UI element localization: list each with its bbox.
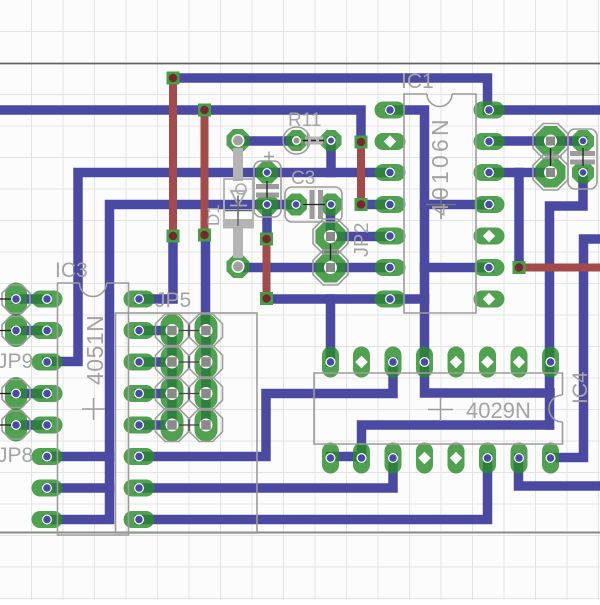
board outline top edge bbox=[0, 63, 600, 65]
airwire R11 bbox=[303, 140, 325, 142]
JP2 label bbox=[351, 223, 373, 257]
via V7 at (266.5,239) bbox=[260, 233, 273, 246]
IC1 pad holes bbox=[384, 105, 495, 305]
svg-text:JP8: JP8 bbox=[0, 444, 33, 467]
wire IC4 pad up and across bbox=[362, 425, 550, 458]
JP2 header outline bbox=[313, 219, 348, 285]
wire IC3 pin stub row 488 bbox=[47, 483, 110, 493]
airwire C3 bbox=[303, 204, 325, 206]
IC IC3 package outline bbox=[58, 283, 129, 535]
via V1 at (173,78) bbox=[167, 72, 180, 85]
D1 pad holes bbox=[232, 134, 245, 273]
capacitor C3 pads bbox=[285, 194, 342, 216]
wire branch to IC1 pin 11 bbox=[425, 200, 490, 210]
wire net y=204 C3 left to IC3 left column bbox=[47, 205, 296, 520]
JP2 pad holes bbox=[324, 230, 337, 274]
wire JP9 pad to IC3 row 330 bbox=[16, 326, 47, 336]
via V8 at (266.5,298.5) bbox=[260, 292, 273, 305]
JP5 pin crosses bbox=[177, 325, 201, 432]
wire GND bus top-left to via bbox=[0, 110, 361, 142]
svg-text:JP5: JP5 bbox=[155, 289, 191, 312]
capacitor C2 outline bbox=[568, 129, 597, 189]
wire via to IC1 pin 7 row y=299 bbox=[267, 294, 425, 304]
capacitor C2 pads bbox=[572, 130, 594, 184]
wire R11 right pad down bbox=[326, 141, 336, 173]
C3 label bbox=[291, 168, 315, 189]
svg-text:40106N: 40106N bbox=[427, 116, 453, 216]
JP8 label bbox=[0, 444, 33, 467]
svg-text:JP2: JP2 bbox=[351, 223, 373, 257]
wire top right cap down to IC4 bbox=[550, 173, 584, 426]
svg-text:4051N: 4051N bbox=[82, 315, 108, 385]
IC1 pads DIP-14 bbox=[375, 102, 505, 308]
red wire top layer x=266 bbox=[263, 239, 271, 299]
red wire top layer x=173 bbox=[169, 78, 177, 236]
wire IC3 row 519 to IC4 pad bbox=[139, 458, 488, 520]
R11 label bbox=[288, 110, 321, 131]
wire IC3 to JP5 row 425 bbox=[139, 420, 172, 430]
resistor R11 outline bbox=[283, 127, 323, 154]
svg-text:4029N: 4029N bbox=[466, 398, 531, 423]
wire IC3 pin 9 to IC4 pad bbox=[139, 362, 393, 457]
wire IC3 to JP5 row 362 bbox=[139, 357, 172, 367]
via V2 at (204.5,110) bbox=[198, 104, 211, 117]
wire D1 top to R11 left bbox=[238, 136, 296, 146]
via V3 at (361,142) bbox=[355, 136, 368, 149]
diode D1 pads bbox=[227, 129, 250, 278]
wire IC1 pin 13 to top right pads bbox=[489, 136, 583, 146]
IC3 center cross bbox=[82, 398, 105, 420]
C3 pad holes bbox=[292, 200, 336, 209]
svg-text:IC3: IC3 bbox=[55, 259, 88, 282]
svg-text:IC1: IC1 bbox=[401, 70, 434, 93]
JP5 header outline bbox=[116, 313, 258, 533]
airwire C4 bbox=[266, 181, 268, 198]
svg-text:IC4: IC4 bbox=[569, 371, 592, 404]
JP9 label bbox=[0, 350, 33, 373]
IC4 value 4029N bbox=[466, 398, 531, 423]
wire via to IC1 pin 4 bbox=[361, 200, 390, 210]
R11 pad holes bbox=[292, 136, 336, 145]
wire IC1 pin 1 long vertical net bbox=[390, 110, 550, 393]
IC1 value 40106N bbox=[427, 116, 453, 216]
airwire C2 bbox=[582, 148, 584, 166]
red wire top layer y=267 to right edge bbox=[519, 264, 600, 272]
JP9 JP8 left header pads bbox=[5, 283, 27, 442]
svg-text:R11: R11 bbox=[288, 110, 321, 131]
C2 pad holes bbox=[579, 137, 588, 178]
op-amp IC1 package outline bbox=[404, 94, 476, 313]
IC3 pad holes bbox=[42, 294, 144, 525]
wire IC4 bottom pads bridge bbox=[331, 452, 362, 462]
wire JP9 pad to IC3 row 299 bbox=[16, 294, 47, 304]
wire D1 bottom through JP2 pin 2 to IC1 pin 6 bbox=[238, 263, 390, 273]
capacitor C4 outline bbox=[254, 152, 281, 218]
via V4 at (361,204.5) bbox=[355, 198, 368, 211]
IC1 label bbox=[401, 70, 434, 93]
svg-text:C3: C3 bbox=[291, 168, 315, 189]
via V5 at (173,236) bbox=[167, 230, 180, 243]
C4 pad holes bbox=[263, 168, 272, 209]
D1 label bbox=[204, 204, 223, 226]
wire IC3 to JP5 row 330 bbox=[139, 326, 172, 336]
IC3 value 4051N bbox=[82, 315, 108, 385]
JP5 pad holes bbox=[166, 324, 213, 432]
airwire JP9 row 330 bbox=[0, 330, 12, 332]
wire branch down to via x=519 bbox=[514, 173, 524, 268]
capacitor C3 outline bbox=[285, 187, 342, 222]
wire JP8 pad to IC3 row 425 bbox=[16, 420, 47, 430]
wire C3 right pad to JP2 pin 1 bbox=[326, 205, 336, 237]
wire C4 bottom to via bbox=[262, 205, 272, 240]
airwire JP2 bbox=[330, 244, 332, 260]
wire via to IC1 pin row via top bbox=[173, 78, 600, 110]
IC3 pads DIP-16 bbox=[32, 291, 155, 529]
diode D1 body bbox=[224, 148, 253, 258]
airwire JP8 row 425 bbox=[0, 424, 12, 426]
JP4 header pads top right bbox=[536, 126, 566, 188]
red wire top layer x=204 bbox=[201, 110, 209, 235]
wire long net y=172 to IC1 pin 3 and down to IC3 bbox=[47, 173, 390, 362]
JP5 label bbox=[155, 289, 191, 312]
via V9 at (519,267.5) bbox=[513, 261, 526, 274]
IC4 pad holes bbox=[326, 356, 556, 464]
IC4 label bbox=[569, 371, 592, 404]
via V6 at (204.5,235) bbox=[198, 229, 211, 242]
wire IC4 pad to right edge y=486 bbox=[519, 458, 600, 486]
wire IC1 pin 12 to JP4 pad bbox=[489, 168, 551, 178]
airwire JP4 bbox=[550, 148, 552, 166]
airwire JP9 row 299 bbox=[0, 298, 12, 300]
IC3 label bbox=[55, 259, 88, 282]
wire IC4 pad to right edge via x=583 bbox=[551, 239, 600, 458]
IC4 center cross bbox=[428, 398, 453, 421]
svg-text:JP9: JP9 bbox=[0, 350, 33, 373]
wire JP9 pad to IC3 row 393 bbox=[16, 389, 47, 399]
IC IC4 package outline bbox=[314, 373, 563, 444]
resistor R11 pads bbox=[286, 130, 342, 151]
JP4 header outline bbox=[533, 124, 568, 191]
red wire top layer x=361 bbox=[357, 142, 365, 205]
board outline bottom edge bbox=[0, 532, 600, 534]
JP2 header pads bbox=[316, 222, 346, 283]
wire JP5 col2 interconnect bbox=[201, 331, 211, 426]
JP9/JP8 header outlines bbox=[2, 285, 30, 439]
wire branch down to IC4 pad col 1 bbox=[326, 299, 336, 362]
IC1 center cross bbox=[426, 190, 456, 219]
wire IC3 row 488 to IC4 pad bbox=[139, 458, 393, 488]
capacitor C4 pads bbox=[256, 162, 278, 216]
svg-text:D1: D1 bbox=[204, 204, 223, 226]
wire IC3 pin stub row 456 bbox=[47, 452, 110, 462]
wire via down to JP5 col2 bbox=[201, 235, 211, 331]
IC4 pads DIP-16 bbox=[322, 347, 559, 474]
airwire JP9 row 393 bbox=[0, 393, 12, 395]
wire IC3 to JP5 row 393 bbox=[139, 389, 172, 399]
wire via to IC3 pin 1 bbox=[139, 236, 173, 299]
wire JP2 pin 1 to IC1 pin 5 bbox=[331, 232, 391, 242]
wire JP5 col1 interconnect bbox=[167, 331, 177, 426]
JP9/JP8 pad holes bbox=[11, 294, 21, 430]
wire branch to IC1 pin 9 bbox=[425, 263, 490, 273]
JP4 pad holes bbox=[544, 135, 557, 180]
JP5 header pads 2x4 bbox=[161, 314, 218, 442]
